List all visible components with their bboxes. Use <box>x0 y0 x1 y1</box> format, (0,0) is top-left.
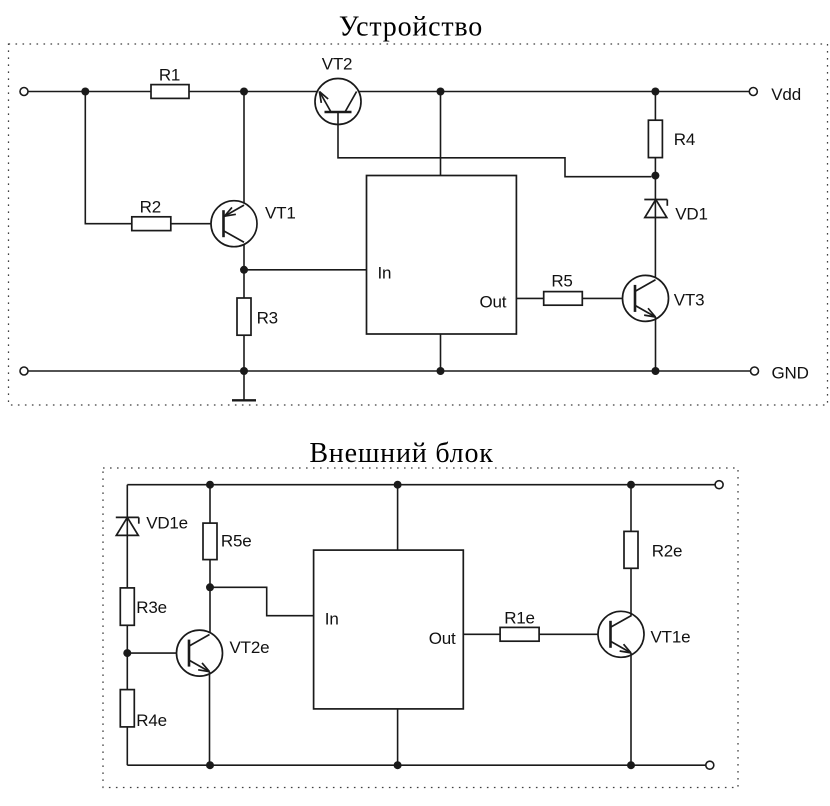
node D junction (rail-block) <box>437 88 445 96</box>
svg-text:VT1e: VT1e <box>651 628 691 647</box>
terminal top right ext <box>715 481 723 489</box>
label R4e <box>136 711 167 730</box>
label R3e <box>136 598 167 617</box>
pin label Out <box>479 293 506 312</box>
svg-text:Внешний блок: Внешний блок <box>309 438 493 469</box>
wire node G step to In <box>210 587 314 615</box>
node GND-VT3 junction <box>652 367 660 375</box>
wire VT2e emitter to bottom rail <box>209 672 211 766</box>
resistor R3 <box>237 298 251 335</box>
wire block U2 to bottom rail <box>397 709 399 765</box>
svg-text:R1e: R1e <box>504 609 535 628</box>
node rail-R2e junction <box>627 481 635 489</box>
label VT3 <box>674 290 705 309</box>
title: Устройство <box>339 12 483 43</box>
wire VT1 collector to node C <box>243 242 245 270</box>
transistor VT1 <box>211 201 257 247</box>
label R1e <box>504 609 535 628</box>
wire Out to R1e <box>463 633 500 635</box>
wire R3 to GND rail <box>243 335 245 371</box>
wire top rail ext <box>127 484 715 486</box>
label R2 <box>140 198 161 217</box>
wire node F through VD1 to VT3 collector <box>654 176 656 280</box>
svg-text:Out: Out <box>479 293 506 312</box>
wire VT2e base <box>127 652 189 654</box>
transistor VT2e <box>177 630 223 676</box>
svg-text:VT1: VT1 <box>265 204 296 223</box>
node GND-R3 junction <box>240 367 248 375</box>
svg-text:In: In <box>378 264 392 283</box>
frame: device dotted border <box>9 44 828 405</box>
wire node G to VT2e collector <box>209 587 211 636</box>
wire VT2 base step to R4 node <box>338 112 651 177</box>
svg-text:R5: R5 <box>551 271 572 290</box>
node GND-block junction <box>437 367 445 375</box>
node F junction (R4-VD1) <box>651 172 659 180</box>
diode VD1e (zener) <box>116 517 139 535</box>
wire left column (rail to VD1e) <box>126 485 128 518</box>
terminal Vdd right <box>749 88 757 96</box>
svg-text:Устройство: Устройство <box>339 12 483 43</box>
label VT2 <box>322 54 353 73</box>
diode VD1 (zener) <box>644 200 667 218</box>
wire R4 to node F <box>654 158 656 176</box>
wire Out to R5 <box>516 297 543 299</box>
label R3 <box>257 309 278 328</box>
svg-text:Out: Out <box>429 629 456 648</box>
svg-text:R2e: R2e <box>652 541 683 560</box>
frame: external block dotted border <box>103 468 738 788</box>
label R5e <box>221 532 252 551</box>
terminal GND left <box>20 367 28 375</box>
wire node D to block top <box>440 92 442 176</box>
pin label Out ext <box>429 629 456 648</box>
terminal Vdd-in left <box>20 88 28 96</box>
label Vdd <box>771 85 801 104</box>
label GND <box>772 363 809 382</box>
node G junction (R5e-VT2e) <box>206 583 214 591</box>
label VT1 <box>265 204 296 223</box>
wire In (node C to block) <box>244 269 367 271</box>
wire rail to R5e <box>209 485 211 523</box>
block U1 <box>367 176 517 335</box>
wire rail to block U2 <box>397 485 399 550</box>
terminal bottom right ext <box>706 761 714 769</box>
wire R4e to bottom rail <box>126 727 128 765</box>
label VD1 <box>675 204 707 223</box>
node bottom-VT2e junction <box>206 761 214 769</box>
svg-text:R3e: R3e <box>136 598 167 617</box>
svg-text:VT2e: VT2e <box>230 638 270 657</box>
wire R3e to R4e <box>126 625 128 689</box>
label R5 <box>551 271 572 290</box>
label VT1e <box>651 628 691 647</box>
node C junction <box>240 266 248 274</box>
svg-text:VT3: VT3 <box>674 290 705 309</box>
resistor R2 <box>132 217 171 231</box>
wire rail to R2e <box>630 485 632 532</box>
resistor R4 <box>648 120 662 157</box>
node base VT2e junction <box>123 649 131 657</box>
svg-text:Vdd: Vdd <box>771 85 801 104</box>
wire node-A to R2 <box>85 92 132 224</box>
wire node-B down to VT1 emitter <box>243 92 245 206</box>
wire R2e to VT1e collector <box>630 568 632 616</box>
svg-text:In: In <box>325 609 339 628</box>
node bottom-VT1e junction <box>627 761 635 769</box>
wire VD1e to R3e <box>126 517 128 588</box>
wire GND rail <box>28 370 751 372</box>
node A junction <box>81 88 89 96</box>
svg-text:R2: R2 <box>140 198 161 217</box>
label R4 <box>674 130 695 149</box>
transistor VT3 <box>623 275 669 321</box>
label VT2e <box>230 638 270 657</box>
terminal GND right <box>751 367 759 375</box>
svg-text:R1: R1 <box>159 65 180 84</box>
resistor R4e <box>120 690 134 727</box>
pin label In ext <box>325 609 339 628</box>
wire R1e to VT1e base <box>539 633 610 635</box>
svg-text:VD1e: VD1e <box>146 513 188 532</box>
node rail-block junction ext <box>394 481 402 489</box>
node rail-R5e junction <box>206 481 214 489</box>
resistor R3e <box>120 588 134 625</box>
svg-text:R4: R4 <box>674 130 695 149</box>
transistor VT1e <box>598 611 644 657</box>
wire bottom rail ext <box>127 764 706 766</box>
wire rail to R4 <box>654 92 656 121</box>
resistor R2e <box>624 531 638 568</box>
label R1 <box>159 65 180 84</box>
title: Внешний блок <box>309 438 493 469</box>
svg-text:VT2: VT2 <box>322 54 353 73</box>
node bottom-block junction ext <box>394 761 402 769</box>
resistor R5 <box>544 292 583 306</box>
wire VT3 emitter to GND <box>655 317 657 371</box>
resistor R1 <box>151 85 189 99</box>
svg-text:GND: GND <box>772 363 809 382</box>
wire R5e to node G <box>209 560 211 588</box>
svg-text:R4e: R4e <box>136 711 167 730</box>
pin label In <box>378 264 392 283</box>
wire R2 to VT1 base <box>171 223 224 225</box>
wire Vdd rail <box>28 91 749 93</box>
label VD1e <box>146 513 188 532</box>
resistor R1e <box>500 627 539 641</box>
wire VT1e emitter to bottom rail <box>630 653 632 765</box>
block U2 <box>314 550 464 709</box>
wire node C to R3 <box>243 270 245 298</box>
node E junction (rail-R4) <box>651 88 659 96</box>
svg-text:R5e: R5e <box>221 532 252 551</box>
wire block bottom to GND <box>440 334 442 371</box>
svg-text:VD1: VD1 <box>675 204 707 223</box>
transistor VT2 <box>315 79 361 125</box>
wire R5 to VT3 base <box>582 297 635 299</box>
svg-text:R3: R3 <box>257 309 278 328</box>
ground symbol <box>232 371 256 400</box>
node B junction (R1-VT1) <box>240 88 248 96</box>
label R2e <box>652 541 683 560</box>
resistor R5e <box>203 523 217 560</box>
